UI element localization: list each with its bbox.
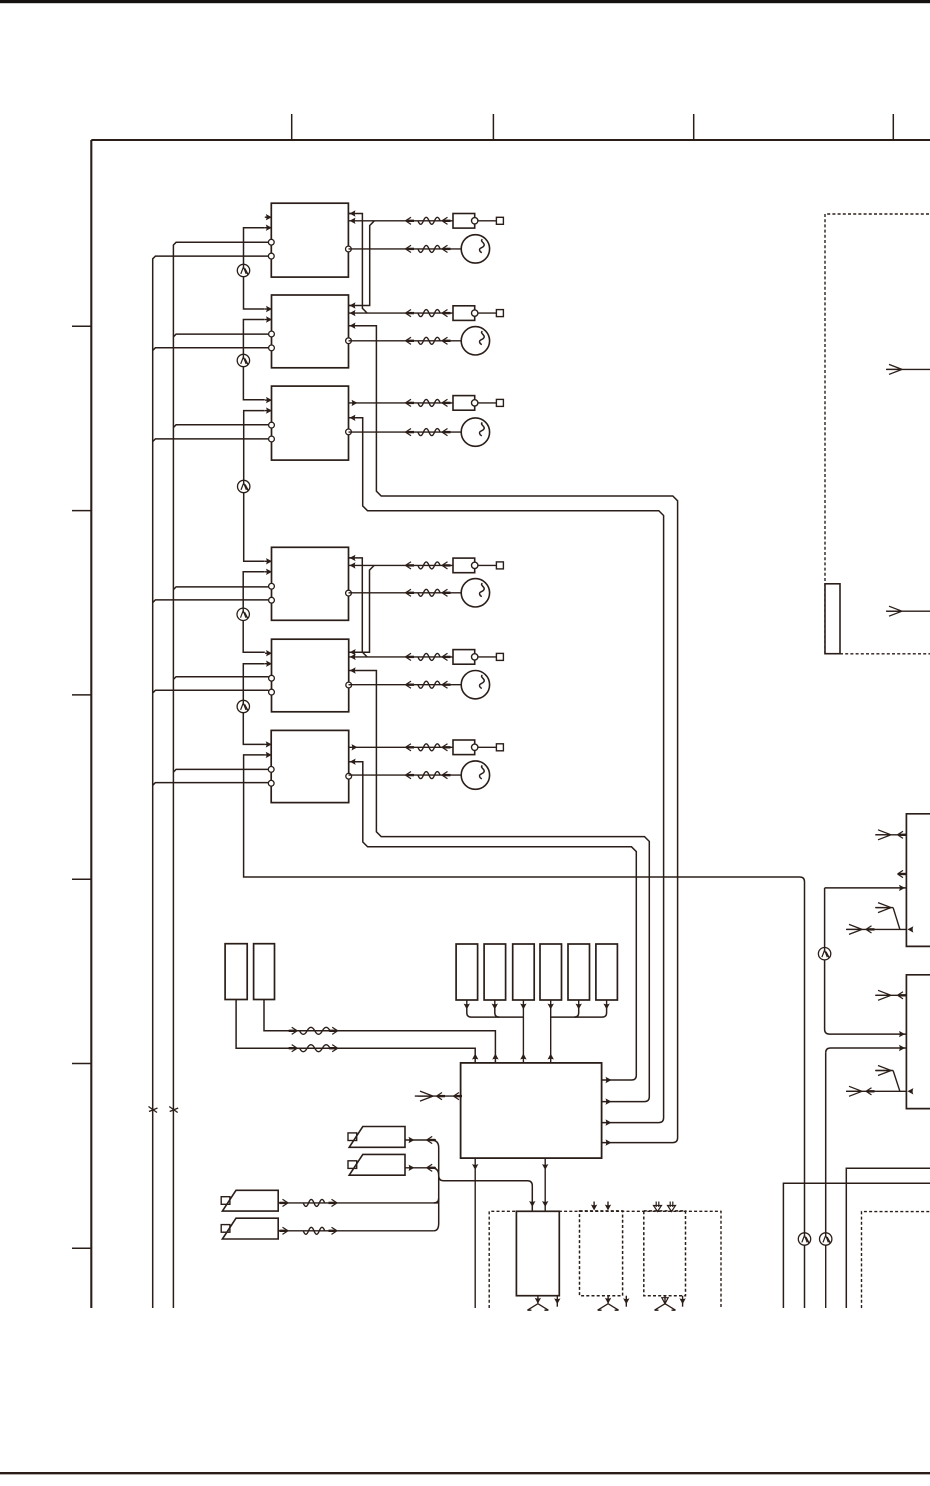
- drawing border top: [91, 139, 930, 141]
- bus V1 join from B2 pin4: [153, 690, 269, 693]
- display dashed unit: [825, 214, 930, 654]
- long wire bottom-right continuation: [804, 1245, 806, 1308]
- terminal lead 1: [478, 220, 497, 222]
- top margin tick 2: [492, 114, 494, 140]
- fuse F6: [418, 744, 440, 751]
- bus V1 break mark: [149, 1107, 158, 1113]
- bus V1 join from B3 pin4: [153, 783, 269, 786]
- wire B2.p3R down-right to matrix pin2: [349, 671, 650, 1102]
- fuse F1: [418, 217, 440, 224]
- lamp L6: [461, 761, 489, 789]
- driver block A1: [271, 203, 348, 277]
- A1 right pin2 arrow: [350, 218, 356, 224]
- driver block A2: [272, 295, 349, 368]
- bus V2 join from A2 pin3: [173, 334, 268, 337]
- AMP1 gnd arrow: [556, 1296, 558, 1307]
- fused line to lamp row 2: [349, 340, 462, 342]
- fused line to connector row 2: [349, 312, 454, 314]
- matrix controller U1: [461, 1063, 602, 1158]
- terminal square 6: [496, 744, 503, 751]
- bus wire V2 (x=173.4): [173, 242, 268, 1308]
- matrix top pin1 arrow: [472, 1054, 478, 1060]
- fuse FL-L1: [300, 1045, 331, 1052]
- wire L1 to matrix pin1: [236, 1000, 475, 1063]
- amp dashed enclosure: [489, 1211, 721, 1308]
- bus wire V1 (x=152.7): [153, 256, 269, 1308]
- A2 right pin1 arrow: [350, 302, 356, 308]
- B1 left pin3 circle: [269, 583, 275, 589]
- B3 left pin1 arrow: [265, 743, 271, 745]
- bus V1 join from A3 pin4: [153, 439, 269, 442]
- lamp L5: [461, 671, 489, 699]
- resistor block L2: [254, 944, 275, 1000]
- terminal square 3: [496, 399, 503, 406]
- connector plug P5: [453, 650, 475, 665]
- AMP3 gnd fan: [664, 1296, 666, 1304]
- left margin tick 5: [72, 1063, 91, 1065]
- wire-junction symbol J1: [237, 264, 249, 276]
- B2 left pin1 arrow: [265, 652, 271, 654]
- lamp L2: [461, 327, 489, 355]
- K2 output: [405, 1167, 436, 1169]
- matrix top pin2 arrow: [492, 1054, 498, 1060]
- lamp L4: [461, 579, 489, 607]
- chain wire A3.2-B1.1: [244, 411, 265, 481]
- wire L2 to matrix pin2: [264, 1000, 495, 1063]
- key switch K3: [221, 1197, 230, 1205]
- terminal lead 3: [478, 402, 497, 404]
- fused line to lamp row 1: [349, 248, 462, 250]
- A1 left pin4 circle: [268, 253, 274, 259]
- terminal square 5: [496, 653, 503, 660]
- matrix top pin3 arrow: [520, 1054, 526, 1060]
- chain wire A2.2-A3.1: [243, 320, 264, 355]
- merge wire R1: [467, 1009, 524, 1018]
- R3 output arrow: [522, 1000, 524, 1009]
- fused line to connector row 4: [349, 564, 454, 566]
- bus V2 join from B1 pin3: [173, 587, 268, 590]
- long wire B3.2 to bottom right: [244, 755, 805, 1233]
- terminal lead 2: [478, 312, 497, 314]
- terminal square 2: [496, 310, 503, 317]
- K3 output: [279, 1202, 438, 1204]
- A2 right lamp pin circle: [346, 338, 352, 344]
- resistor block R6: [596, 944, 618, 1000]
- A2 left pin2 arrow: [265, 319, 271, 321]
- matrix right pin4 arrow: [606, 1139, 612, 1145]
- B2 left pin4 circle: [269, 689, 275, 695]
- B3 left pin4 circle: [268, 780, 274, 786]
- connector plug P3: [453, 396, 475, 411]
- B2 right pin3 arrow: [350, 667, 356, 673]
- page bottom rule: [0, 1472, 930, 1474]
- chain wire B1.2-B2.1: [243, 572, 265, 608]
- AMP2 gnd arrow: [625, 1296, 627, 1307]
- feed wire R4 to matrix: [550, 1009, 552, 1063]
- bus V2 break mark: [169, 1107, 178, 1113]
- key bus branch to amp: [439, 1176, 533, 1212]
- B3 right pin arrow: [350, 759, 356, 765]
- left margin tick 3: [72, 694, 91, 696]
- fuse FK3: [303, 1199, 325, 1206]
- matrix right pin3 arrow: [606, 1119, 612, 1125]
- fuse F5: [418, 653, 440, 660]
- merge wire R6: [551, 1009, 607, 1018]
- wire-junction symbol J2: [237, 354, 249, 366]
- AMP2 input stubs: [593, 1202, 595, 1210]
- fused line to connector row 6: [349, 746, 454, 748]
- rail A: [846, 1168, 930, 1308]
- terminal lead 5: [478, 656, 497, 658]
- fuse FL2: [418, 337, 440, 344]
- R2 output arrow: [494, 1000, 496, 1009]
- B1 right lamp pin circle: [346, 590, 352, 596]
- J-B pin4 fan upper: [876, 1066, 891, 1076]
- fuse F3: [418, 399, 440, 406]
- fused line to connector row 5: [349, 656, 454, 658]
- B2 left pin3 circle: [269, 675, 275, 681]
- wire B1.p1R down to B2 conn row: [349, 558, 368, 657]
- wire B3.pR down-right to matrix pin1: [349, 762, 637, 1080]
- B3 left pin3 circle: [268, 767, 274, 773]
- A1 left pin3 circle: [268, 239, 274, 245]
- A1 right pin1 arrow: [350, 210, 356, 216]
- bus V2 join from A3 pin3: [173, 425, 268, 428]
- key switch K2: [348, 1161, 357, 1169]
- terminal lead 6: [478, 746, 497, 748]
- A2 right pin2 arrow: [350, 310, 356, 316]
- A3 left pin1 arrow: [265, 399, 271, 401]
- resistor block R2: [484, 944, 506, 1000]
- A3 right out arrow: [352, 400, 358, 406]
- B1 left pin4 circle: [269, 597, 275, 603]
- driver block B1: [272, 547, 349, 620]
- left margin tick 4: [72, 878, 91, 880]
- top margin tick 3: [693, 114, 695, 140]
- driver block A3: [272, 386, 349, 460]
- chain wire A1.2-A2.1: [244, 228, 265, 265]
- wire A3.pR down-right to matrix pin3: [349, 418, 664, 1123]
- resistor block L1: [225, 944, 247, 1000]
- resistor block R1: [456, 944, 478, 1000]
- A2 right pin3 arrow: [350, 323, 356, 329]
- left margin tick 1: [72, 325, 91, 327]
- connector plug P2: [453, 306, 475, 321]
- fuse FK4: [303, 1227, 325, 1234]
- junction wire continues: [825, 960, 907, 1034]
- AMP3 gnd arrow: [682, 1296, 684, 1307]
- bus V2 join from B2 pin3: [173, 677, 268, 680]
- bus V1 join from A2 pin4: [153, 348, 269, 351]
- terminal square 4: [496, 562, 503, 569]
- L2 row arrows: [292, 1027, 298, 1034]
- page top black bar: [0, 0, 930, 3]
- A2 left pin1 arrow: [265, 308, 271, 310]
- branch A1 conn row down to A2.p1R: [349, 221, 375, 306]
- lamp L3: [461, 418, 489, 446]
- B3 right out arrow: [352, 744, 358, 750]
- key merge bus: [431, 1140, 439, 1231]
- resistor block R3: [513, 944, 535, 1000]
- left margin tick 2: [72, 510, 91, 512]
- matrix right pin1 arrow: [606, 1077, 612, 1083]
- J-B pin3 vertical continues: [825, 1245, 827, 1308]
- A3 left pin4 circle: [269, 436, 275, 442]
- J-B pin1: [875, 994, 906, 996]
- fused line to lamp row 4: [349, 592, 462, 594]
- rail B: [783, 1183, 930, 1308]
- B1 right pin2 arrow: [350, 562, 356, 568]
- top margin tick 1: [291, 114, 293, 140]
- driver block B3: [271, 730, 349, 802]
- fuse FL4: [418, 589, 440, 596]
- J-B pin3 wire: [826, 1048, 907, 1053]
- merge wire R2: [495, 1009, 500, 1018]
- resistor block R5: [568, 944, 590, 1000]
- wire A2.p3R down-right to matrix pin4: [349, 326, 678, 1143]
- connector plug P6: [453, 740, 475, 755]
- left margin tick 6: [72, 1247, 91, 1249]
- fuse FL6: [418, 772, 440, 779]
- bus V1 join from B1 pin4: [153, 600, 269, 603]
- A2 left pin3 circle: [269, 331, 275, 337]
- fused line to connector row 1: [349, 220, 454, 222]
- amp block AMP2 (dashed): [580, 1211, 623, 1296]
- matrix top pin4 arrow: [548, 1054, 554, 1060]
- A1 left pin1 arrow: [265, 216, 271, 218]
- chain wire B2.2-B3.1: [243, 664, 264, 701]
- top margin tick 4: [892, 114, 894, 140]
- fuse FL5: [418, 681, 440, 688]
- B1 left pin2 arrow: [265, 571, 271, 573]
- fused line to lamp row 5: [349, 684, 462, 686]
- B2 left pin2 arrow: [265, 663, 271, 665]
- A1 right lamp pin circle: [346, 246, 352, 252]
- junction wire down to J-B: [824, 888, 826, 948]
- amp block AMP1: [516, 1211, 559, 1295]
- drawing border left: [90, 140, 92, 1308]
- B2 right pin2 arrow: [350, 654, 356, 660]
- wire-junction symbol J8: [820, 1233, 832, 1245]
- matrix bottom pin1 wire: [474, 1158, 476, 1308]
- wire-junction symbol J3: [238, 480, 250, 492]
- B1 left pin1 arrow: [265, 560, 271, 562]
- display signal arrow 2: [886, 610, 930, 612]
- A3 right pin arrow: [350, 415, 356, 421]
- fused line to lamp row 3: [349, 431, 462, 433]
- K4 output: [279, 1230, 434, 1232]
- display signal arrow 1: [886, 368, 930, 370]
- bus V2 join from B3 pin3: [173, 769, 268, 772]
- lamp L1: [461, 235, 489, 263]
- matrix pin2 entry arrow: [542, 1201, 548, 1207]
- merge wire R5: [574, 1009, 579, 1018]
- fuse FL1: [418, 245, 440, 252]
- L1 row arrows: [292, 1045, 298, 1052]
- jack block J-A: [906, 814, 930, 947]
- fuse FL-L2: [300, 1027, 331, 1034]
- matrix bottom pin2 wire: [544, 1158, 546, 1211]
- driver block B2: [272, 639, 349, 712]
- amp block AMP3 (dashed): [644, 1211, 686, 1296]
- matrix right pin2 arrow: [606, 1098, 612, 1104]
- A2 left pin4 circle: [269, 345, 275, 351]
- A1 left pin2 arrow: [265, 227, 271, 229]
- display connector bar: [825, 584, 840, 654]
- fused line to connector row 3: [349, 402, 454, 404]
- wire A1.p1R down to A2 conn row: [348, 214, 367, 314]
- A3 left pin2 arrow: [265, 410, 271, 412]
- terminal lead 4: [478, 564, 497, 566]
- J-A pin4 fan lower: [847, 924, 862, 934]
- J-A pin1: [875, 834, 906, 836]
- AMP3 input stubs (open): [656, 1202, 659, 1208]
- key switch K4: [221, 1225, 230, 1233]
- matrix left off-page connector: [415, 1095, 461, 1097]
- wire-junction symbol J7: [818, 948, 830, 960]
- connector plug P1: [453, 214, 475, 229]
- K1 output: [405, 1139, 436, 1141]
- fused line to lamp row 6: [349, 774, 462, 776]
- J-B pin3 vertical: [825, 1053, 827, 1233]
- B2 right pin1 arrow: [350, 649, 356, 655]
- connector plug P4: [453, 558, 475, 573]
- fuse F4: [418, 562, 440, 569]
- fuse FL3: [418, 429, 440, 436]
- B2 right lamp pin circle: [346, 682, 352, 688]
- branch B1 conn row down to B2.p1R: [349, 565, 375, 652]
- key switch K1: [348, 1133, 357, 1141]
- J-A pin2 stub: [898, 870, 904, 877]
- AMP2 gnd fan: [607, 1296, 609, 1304]
- B3 left pin2 arrow: [265, 754, 271, 756]
- AMP1 gnd fan: [537, 1296, 539, 1304]
- J-A pin4 fan upper: [876, 903, 891, 913]
- A3 left pin3 circle: [269, 422, 275, 428]
- J-A pin3 wire from junction: [825, 887, 907, 889]
- wire-junction symbol J4: [237, 608, 249, 620]
- B3 right lamp pin circle: [346, 773, 352, 779]
- J-B pin4 fan lower: [847, 1086, 862, 1096]
- bottom-right dashed unit: [862, 1212, 930, 1308]
- A3 right lamp pin circle: [346, 429, 352, 435]
- terminal square 1: [496, 217, 503, 224]
- wire-junction symbol J5: [237, 700, 249, 712]
- B1 right pin1 arrow: [350, 555, 356, 561]
- resistor block R4: [540, 944, 562, 1000]
- R5 output arrow: [578, 1000, 580, 1009]
- R1 output arrow: [466, 1000, 468, 1009]
- jack block J-B: [906, 975, 930, 1109]
- feed wire R3 to matrix: [522, 1009, 524, 1063]
- R4 output arrow: [550, 1000, 552, 1009]
- R6 output arrow: [606, 1000, 608, 1009]
- fuse F2: [418, 310, 440, 317]
- wire-junction symbol J6: [798, 1233, 810, 1245]
